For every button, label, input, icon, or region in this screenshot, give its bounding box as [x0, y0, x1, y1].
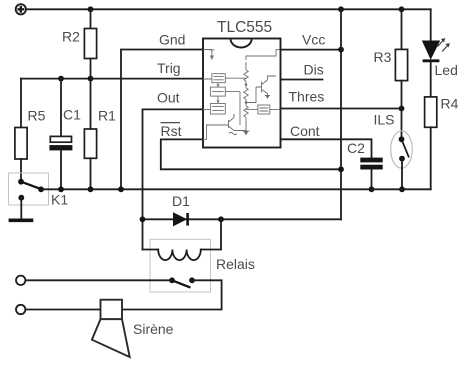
node relay coil right junction	[218, 216, 224, 222]
svg-text:Sirène: Sirène	[133, 321, 174, 337]
wire D1 net	[143, 218, 342, 220]
speaker Sirene	[92, 300, 130, 357]
node K1 bus junction	[38, 186, 44, 192]
svg-text:C1: C1	[63, 106, 81, 122]
wire Rst pin net	[161, 139, 341, 169]
wire Led to R4	[430, 62, 432, 97]
node Rst junction	[338, 166, 344, 172]
node R2 top junction	[88, 6, 94, 12]
wire Cont net	[281, 139, 372, 157]
svg-text:R3: R3	[374, 49, 392, 65]
wire Out pin net	[143, 109, 204, 249]
node Vcc column top junction	[338, 6, 344, 12]
wire R4 bottom lead	[430, 127, 432, 189]
terminal upper left output	[16, 276, 25, 285]
wire R2 bottom lead	[90, 59, 92, 79]
resistor R4	[425, 97, 437, 127]
coil	[143, 249, 159, 251]
svg-text:R1: R1	[98, 107, 116, 123]
switch K1	[9, 173, 49, 205]
node Thres/R3 junction	[399, 106, 405, 112]
terminal lower left output	[16, 305, 25, 314]
wire Thres net	[281, 108, 402, 110]
svg-text:Relais: Relais	[216, 256, 255, 272]
node D1 anode junction	[140, 216, 146, 222]
node C2 bottom junction	[369, 186, 375, 192]
resistor R3	[395, 49, 407, 80]
svg-text:Led: Led	[435, 62, 458, 78]
wire C2 bottom lead	[371, 170, 373, 190]
svg-text:Trig: Trig	[157, 60, 181, 76]
relay switch contacts	[169, 277, 175, 283]
svg-text:R2: R2	[62, 29, 80, 45]
resistor R5	[15, 128, 27, 160]
svg-text:Gnd: Gnd	[159, 31, 185, 47]
wire R2 top lead	[90, 9, 92, 28]
node ILS bottom junction	[399, 186, 405, 192]
node Vcc junction	[338, 47, 344, 53]
diode D1 (Led)	[423, 9, 450, 61]
wire Dis stub	[281, 79, 323, 81]
svg-text:Rst: Rst	[161, 123, 182, 139]
node R1/R2 junction	[88, 76, 94, 82]
wire ground bus	[41, 188, 431, 190]
op-amp U1 TLC555 body	[203, 39, 281, 148]
node C1 top junction	[58, 76, 64, 82]
svg-text:D1: D1	[172, 193, 190, 209]
resistor R2	[84, 29, 96, 59]
relay Relais	[143, 219, 222, 292]
svg-text:R5: R5	[28, 107, 46, 123]
wire K1 to ground	[20, 198, 22, 220]
node R3 column top junction	[399, 6, 405, 12]
node C1 bus junction	[58, 186, 64, 192]
svg-text:K1: K1	[51, 191, 68, 207]
svg-text:TLC555: TLC555	[217, 19, 272, 36]
capacitor C1	[49, 136, 72, 150]
node R1 bus junction	[88, 186, 94, 192]
wire R5 bottom lead	[20, 159, 22, 182]
wire Vcc pin lead	[281, 49, 342, 51]
node Gnd bus junction	[118, 186, 124, 192]
wire terminal to relay switch	[25, 279, 172, 281]
svg-text:Out: Out	[157, 90, 180, 106]
555 internal block diagram	[203, 50, 281, 140]
svg-text:Vcc: Vcc	[302, 32, 325, 48]
ground	[9, 219, 34, 223]
wire C1 top lead	[60, 79, 62, 137]
capacitor C2	[360, 158, 382, 170]
svg-text:Cont: Cont	[290, 123, 320, 139]
svg-text:ILS: ILS	[374, 112, 395, 128]
wire R5 top lead	[20, 79, 22, 128]
diode D1	[174, 213, 188, 226]
wire R3 bottom lead	[401, 81, 403, 140]
wire Trig net horizontal	[21, 78, 203, 80]
svg-text:Dis: Dis	[304, 62, 324, 78]
svg-text:R4: R4	[441, 96, 459, 112]
terminal + (top left supply terminal)	[16, 4, 26, 14]
wire terminal to siren	[25, 309, 100, 311]
wire R1 bottom lead	[90, 158, 92, 189]
svg-text:Thres: Thres	[289, 89, 325, 105]
resistor R1	[84, 129, 96, 158]
wire R3 top lead	[401, 9, 403, 49]
wire Gnd pin net	[121, 50, 203, 190]
svg-text:C2: C2	[347, 140, 365, 156]
wire top bus	[26, 8, 430, 10]
wire C1 bottom lead	[60, 150, 62, 189]
wire Vcc column vertical	[340, 9, 342, 219]
wire R1 top lead	[90, 79, 92, 129]
ILS reed switch	[391, 131, 413, 189]
wire relay switch to siren loop	[122, 280, 222, 309]
